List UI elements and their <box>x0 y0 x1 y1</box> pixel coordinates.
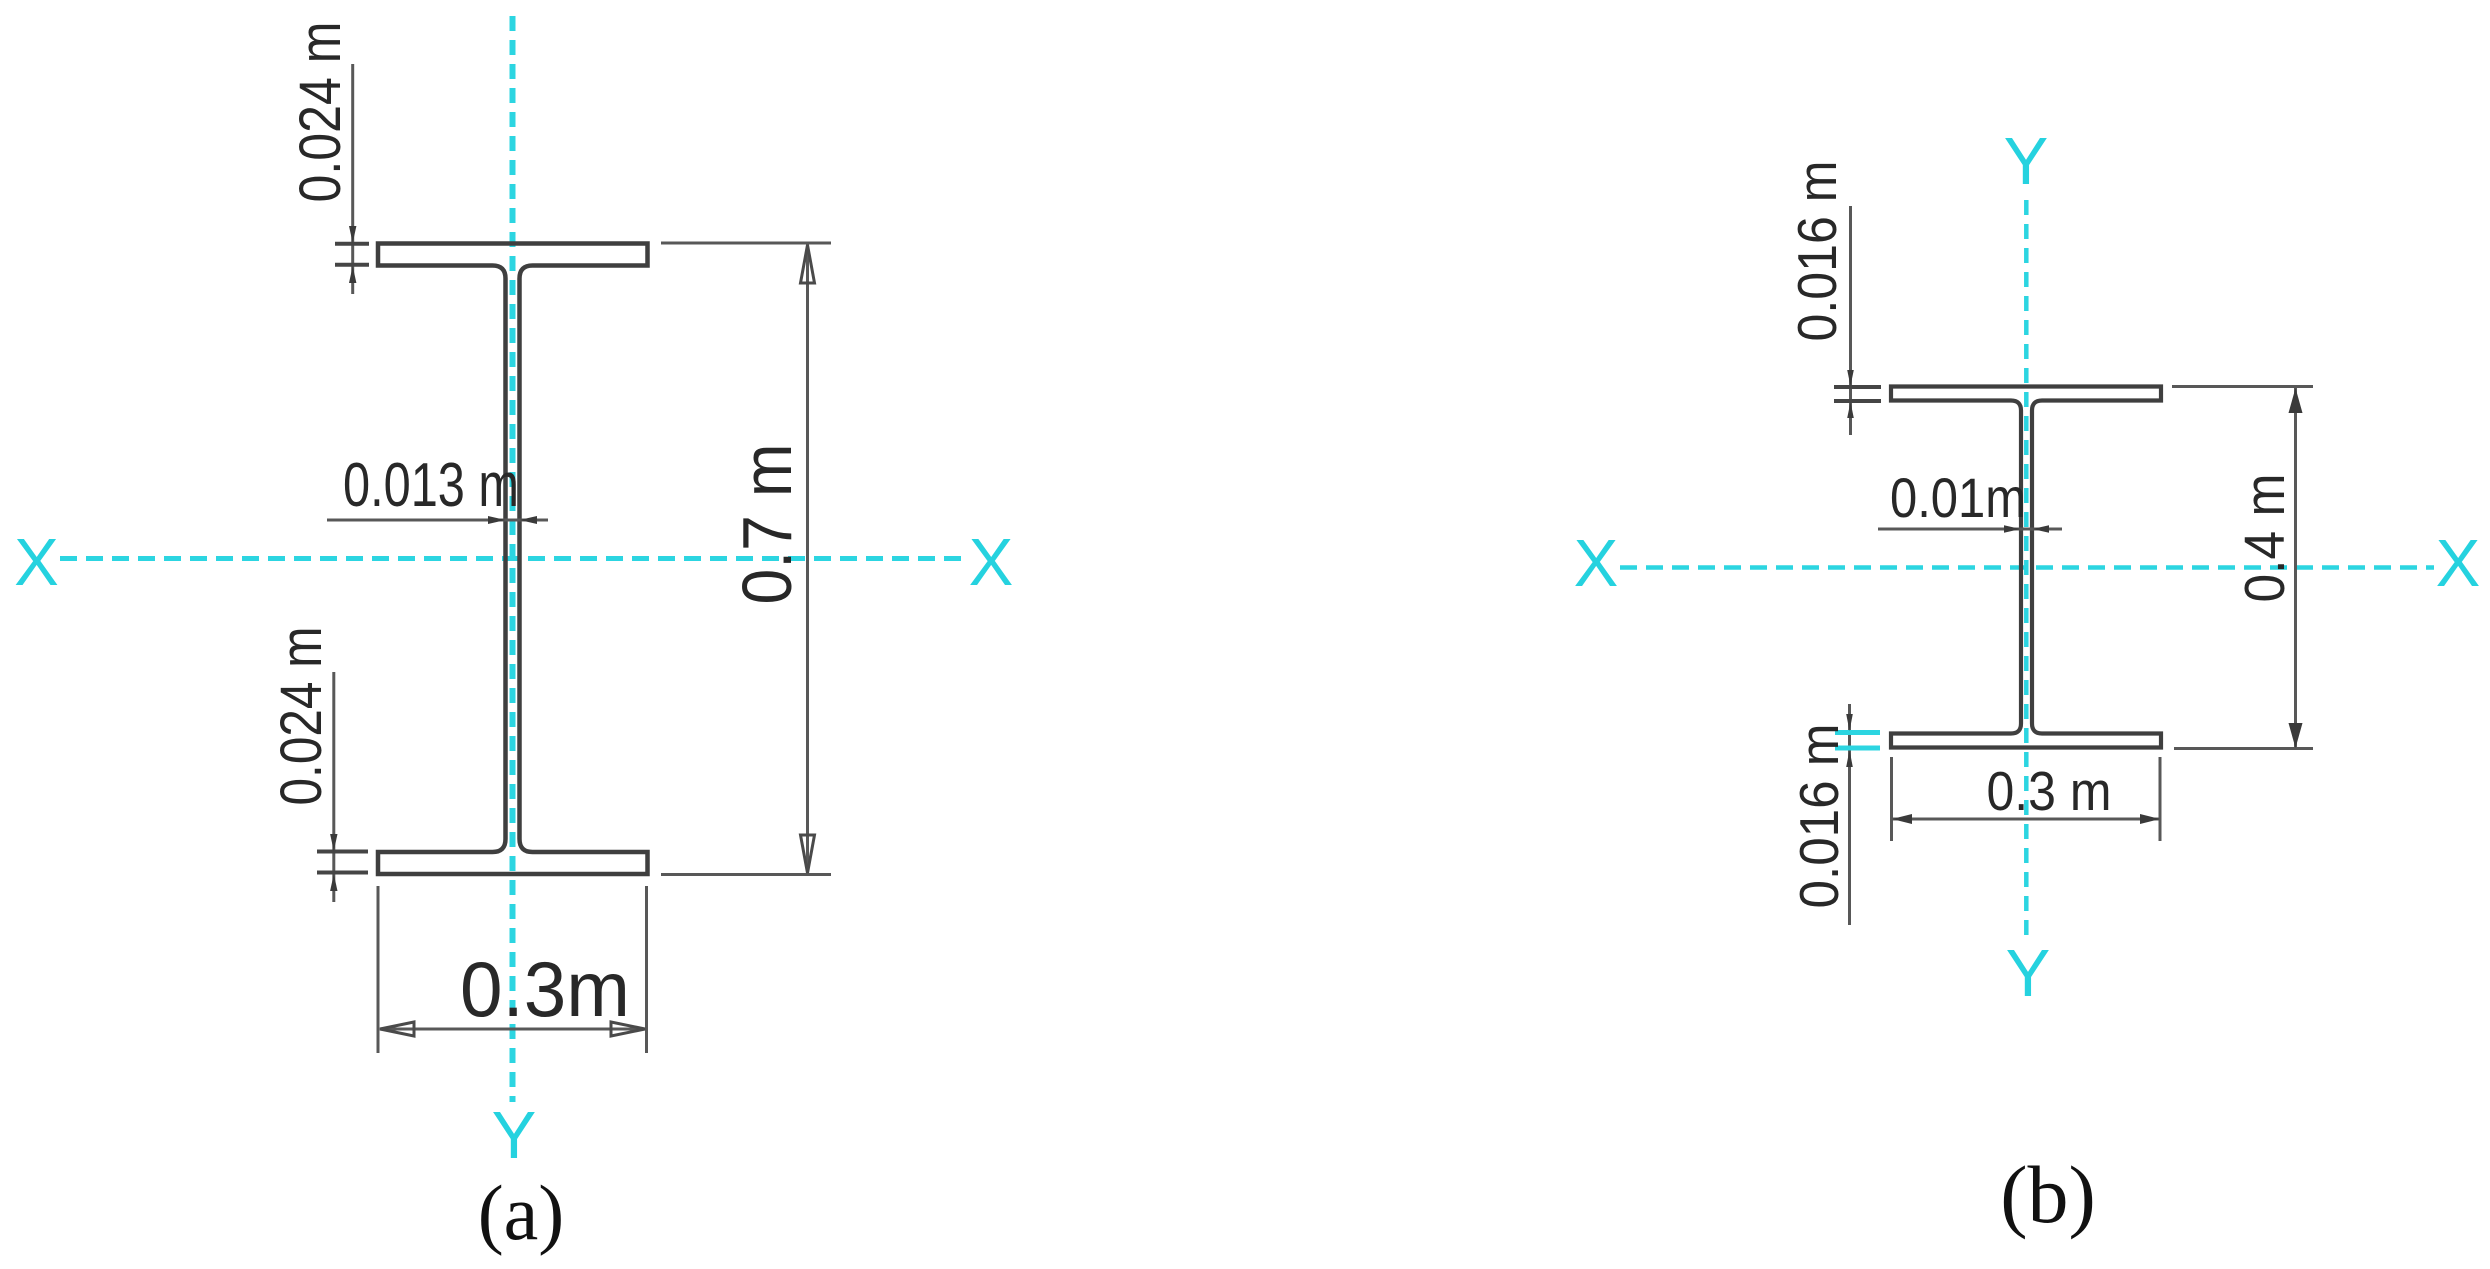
svg-text:(a): (a) <box>478 1169 565 1256</box>
X-X centerline dashed (a) <box>60 556 964 561</box>
svg-text:X: X <box>14 525 59 600</box>
dimension 0.024 m bottom flange (a) <box>269 627 368 903</box>
svg-text:(b): (b) <box>2000 1149 2096 1240</box>
svg-text:0.013 m: 0.013 m <box>343 451 519 520</box>
Y-Y centerline dashed (a) <box>510 16 516 1102</box>
svg-text:Y: Y <box>2004 124 2049 199</box>
svg-text:0.4 m: 0.4 m <box>2233 474 2297 603</box>
dimension 0.3 m bottom width (b) <box>1892 757 2161 841</box>
dimension 0.013 m web (a) <box>327 451 548 524</box>
I-beam (b) outline <box>1891 387 2161 748</box>
svg-text:0.7 m: 0.7 m <box>728 444 806 605</box>
svg-text:0.016 m: 0.016 m <box>1786 161 1848 342</box>
dimension 0.024 m top flange (a) <box>288 22 369 295</box>
svg-text:X: X <box>1574 526 1619 601</box>
svg-text:0.016 m: 0.016 m <box>1788 724 1850 909</box>
svg-text:X: X <box>969 525 1014 600</box>
I-beam (a) outline <box>378 244 648 875</box>
dimension 0.4 m height (b) <box>2172 387 2313 749</box>
svg-text:0.024 m: 0.024 m <box>269 627 334 806</box>
svg-text:0.3m: 0.3m <box>460 945 630 1033</box>
X-X centerline dashed (b) <box>1620 565 2434 570</box>
dimension 0.3 m bottom width (a) <box>378 886 647 1053</box>
dimension 0.016 m bottom flange (b) <box>1788 704 1880 925</box>
svg-text:X: X <box>2436 526 2481 601</box>
svg-text:0.3 m: 0.3 m <box>1987 760 2112 822</box>
svg-text:0.01m: 0.01m <box>1890 466 2026 529</box>
dimension 0.7 m height (a) <box>661 243 831 875</box>
dimension 0.01 m web (b) <box>1878 466 2062 533</box>
Y-Y centerline dashed (b) <box>2024 200 2029 935</box>
svg-text:0.024 m: 0.024 m <box>288 22 353 203</box>
svg-text:Y: Y <box>492 1098 537 1173</box>
dimension 0.016 m top flange (b) <box>1786 161 1881 436</box>
svg-text:Y: Y <box>2006 936 2051 1011</box>
